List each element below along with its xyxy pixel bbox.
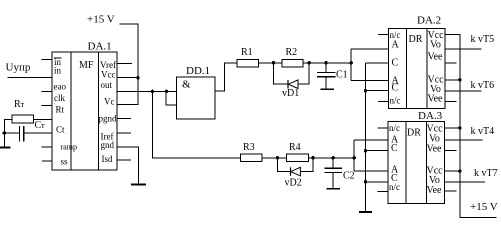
svg-text:R4: R4 <box>289 142 301 153</box>
wire DA.2 Vcc2 to rail <box>445 79 460 81</box>
ground <box>131 184 146 186</box>
pin eao stub <box>42 90 53 92</box>
junction DA.2 C2 <box>364 89 367 92</box>
svg-text:pgnd: pgnd <box>99 113 118 123</box>
resistor R2 <box>282 59 303 67</box>
wire DA.3 A1 <box>354 139 388 141</box>
svg-text:C: C <box>392 83 399 94</box>
pin ramp stub <box>42 146 53 148</box>
pin Ct wire from capacitor Ct <box>24 132 52 134</box>
svg-text:Vee: Vee <box>427 144 443 155</box>
wire DA.3 Vo1 output <box>445 139 483 141</box>
wire DA.2 C2 <box>366 90 389 92</box>
wire DA.3 A2 <box>354 170 388 172</box>
pin label in(overline) <box>54 57 62 59</box>
wire Rt left to ground rail <box>4 119 12 147</box>
wire DA.2 A1 <box>351 48 388 50</box>
wire DA.2 anode feed vertical <box>350 49 352 80</box>
svg-text:MF: MF <box>79 60 94 71</box>
svg-text:n/c: n/c <box>389 123 400 133</box>
pin n/c stub DA.3 bottom <box>378 191 389 193</box>
pin ss stub <box>42 160 52 162</box>
pin Vee2 stub DA.3 <box>445 190 457 192</box>
diode VD2 branch wires <box>277 158 290 172</box>
wire DA.3 anode feed vertical <box>353 140 355 171</box>
wire gate second input <box>166 91 176 105</box>
svg-text:C: C <box>391 143 398 154</box>
svg-text:DR: DR <box>407 128 421 139</box>
junction DA.3 C1 <box>364 149 367 152</box>
svg-text:k vT7: k vT7 <box>474 168 498 179</box>
wire DA.3 Vcc1 to rail <box>445 127 460 129</box>
svg-text:+15 V: +15 V <box>470 201 498 213</box>
logic gate DD.1 <box>177 77 216 119</box>
pin Vee2 stub DA.2 <box>445 100 457 102</box>
svg-text:Vo: Vo <box>430 40 441 51</box>
junction Rt/Ct node <box>3 131 6 134</box>
pin Vref stub <box>117 62 132 64</box>
junction DA.3 Vcc2 rail <box>458 170 461 173</box>
svg-text:clk: clk <box>54 93 65 103</box>
junction VD1 left <box>272 61 275 64</box>
svg-text:k vT5: k vT5 <box>471 34 495 45</box>
wire DA.2 A2 <box>351 79 388 81</box>
svg-text:Uупр: Uупр <box>6 62 31 74</box>
ground <box>321 88 335 90</box>
junction rail to DA.3 anode feed <box>353 156 356 159</box>
svg-text:&: & <box>182 79 191 91</box>
junction VD1 right <box>308 61 311 64</box>
svg-text:DD.1: DD.1 <box>186 65 210 77</box>
capacitor Ct <box>19 126 21 142</box>
wire R1 to R2 <box>259 62 282 64</box>
svg-text:C1: C1 <box>336 70 348 81</box>
svg-text:DA.2: DA.2 <box>417 15 441 27</box>
svg-text:eao: eao <box>54 82 67 92</box>
wire gate output to R1 <box>215 63 237 91</box>
svg-text:n/c: n/c <box>390 96 401 106</box>
svg-text:R1: R1 <box>241 47 253 58</box>
svg-text:vD1: vD1 <box>282 88 299 99</box>
svg-text:DR: DR <box>409 34 423 45</box>
svg-text:R3: R3 <box>243 142 255 153</box>
junction Vcc2 rail <box>458 78 461 81</box>
capacitor C1 <box>325 63 327 73</box>
junction VD2 right <box>311 156 314 159</box>
svg-text:n/c: n/c <box>390 30 401 40</box>
wire DA.3 C2 <box>366 181 389 183</box>
svg-text:vD2: vD2 <box>285 178 302 189</box>
diode VD1 <box>287 80 289 89</box>
junction C2 top <box>332 156 335 159</box>
svg-text:Vcc: Vcc <box>101 69 116 79</box>
wire DA.3 Vcc2 to rail <box>445 170 460 172</box>
junction rail to DA.2 anode feed <box>350 61 353 64</box>
svg-text:Vee: Vee <box>428 94 444 105</box>
resistor Rt <box>12 115 34 123</box>
capacitor C2 <box>332 158 334 169</box>
optocoupler DA.3 box <box>388 121 445 203</box>
wire +15V right rail from DA.2 Vcc1 <box>445 35 497 218</box>
svg-text:Isd: Isd <box>102 154 113 164</box>
pin pgnd stub <box>117 118 131 120</box>
junction out to gate second input <box>165 90 168 93</box>
junction VD2 left <box>276 156 279 159</box>
diode VD2 <box>290 167 292 176</box>
wire DA.3 C1 <box>366 150 389 152</box>
svg-text:k vT4: k vT4 <box>471 126 495 137</box>
svg-text:k vT6: k vT6 <box>471 80 495 91</box>
pin clk stub <box>42 105 53 107</box>
ground <box>0 147 11 149</box>
svg-text:Vc: Vc <box>104 97 115 107</box>
pin n/c stub DA.3 top <box>378 127 389 129</box>
wire drop to lower rail and to R3 <box>152 91 240 157</box>
wire +15V feed to Vcc and Vc <box>117 24 138 105</box>
junction C1 top <box>324 61 327 64</box>
ground <box>327 188 341 190</box>
wire out pin to gate DD.1 <box>117 90 177 92</box>
svg-text:R2: R2 <box>286 47 298 58</box>
wire DA.3 Vo2 output <box>445 181 485 183</box>
wire R3 to R4 <box>262 157 286 159</box>
wire Vcc stub <box>117 77 138 79</box>
svg-text:+15 V: +15 V <box>87 14 115 26</box>
resistor R4 <box>286 154 308 162</box>
pin Vee1 stub DA.2 <box>445 62 457 64</box>
junction out to lower rail <box>151 90 154 93</box>
diode VD1 branch wires <box>274 63 289 84</box>
wire DA.2 Vo1 output <box>445 48 482 50</box>
pin Iref stub <box>117 132 131 134</box>
svg-text:A: A <box>392 40 400 51</box>
resistor R1 <box>237 59 259 67</box>
junction DA.3 Vcc1 rail <box>458 126 461 129</box>
svg-text:n/c: n/c <box>389 182 400 192</box>
pin Rt wire from resistor Rt <box>34 118 52 120</box>
pin n/c stub DA.2 bottom <box>378 100 389 102</box>
svg-text:gnd: gnd <box>101 140 115 150</box>
svg-text:C: C <box>392 57 399 68</box>
pin n/c stub DA.2 top <box>378 34 389 36</box>
junction DA.3 C2 <box>364 180 367 183</box>
svg-text:Ct: Ct <box>56 124 65 134</box>
resistor R3 <box>240 154 262 162</box>
pin in(inv) stub <box>42 58 53 60</box>
svg-text:in: in <box>54 66 62 76</box>
svg-text:ss: ss <box>61 156 69 166</box>
wire node to Ct capacitor <box>4 132 19 134</box>
wire Uupr input to pin in <box>8 77 52 79</box>
wire R2 to rail <box>303 62 351 64</box>
ground <box>359 211 372 213</box>
svg-text:Rt: Rt <box>56 105 65 115</box>
svg-text:DA.3: DA.3 <box>418 110 443 122</box>
svg-text:out: out <box>101 80 113 90</box>
svg-text:Vee: Vee <box>428 52 444 63</box>
wire DA.2 C1 <box>366 62 389 64</box>
junction Vcc +15V <box>136 76 139 79</box>
pin Vee1 stub DA.3 <box>445 149 457 151</box>
svg-text:ramp: ramp <box>61 143 77 152</box>
svg-text:C2: C2 <box>343 171 355 182</box>
svg-text:Rт: Rт <box>14 99 25 110</box>
svg-text:Vee: Vee <box>427 185 443 196</box>
pin Isd stub <box>117 159 131 161</box>
op-amp U1 : PWM controller DA.1 box <box>52 52 117 170</box>
optocoupler DA.2 box <box>389 28 446 108</box>
wire DA.2 Vo2 output <box>445 90 482 92</box>
svg-text:Cт: Cт <box>35 120 46 131</box>
wire gnd pin to ground <box>117 147 138 184</box>
wire cathode chain vertical <box>365 63 367 212</box>
svg-text:DA.1: DA.1 <box>88 41 112 53</box>
wire R4 to rail end <box>308 157 354 159</box>
